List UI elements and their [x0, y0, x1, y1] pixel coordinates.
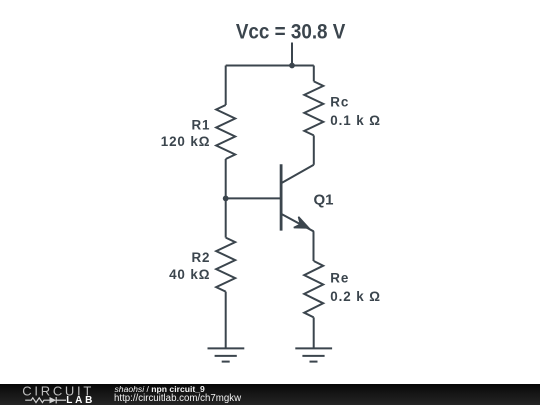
svg-text:Rc: Rc [330, 95, 349, 110]
svg-text:Q1: Q1 [314, 191, 334, 208]
footer bar [0, 384, 540, 405]
wire top rail [226, 65, 314, 67]
ground left [208, 348, 245, 361]
node junction at base [223, 196, 229, 202]
svg-text:0.1 k Ω: 0.1 k Ω [330, 113, 381, 128]
wire Vcc stub [291, 43, 293, 66]
svg-text:LAB: LAB [66, 395, 92, 405]
node junction at Vcc rail [289, 63, 295, 69]
transistor Q1 emitter lead [282, 214, 314, 235]
transistor Q1 collector lead [282, 165, 314, 183]
svg-text:120 kΩ: 120 kΩ [161, 134, 211, 149]
wire emitter vertical [313, 234, 315, 261]
ground right [295, 348, 332, 361]
wire Rc bottom lead [313, 135, 315, 164]
resistor R1 [216, 105, 235, 159]
resistor Re [304, 261, 323, 317]
svg-text:R2: R2 [191, 250, 210, 265]
transistor Q1 emitter arrow [294, 217, 309, 228]
svg-text:Vcc = 30.8 V: Vcc = 30.8 V [236, 20, 346, 44]
wire Re bottom lead [313, 317, 315, 348]
svg-text:0.2 k Ω: 0.2 k Ω [330, 289, 381, 304]
wire R1 bottom lead [225, 159, 227, 198]
resistor R2 [216, 238, 235, 292]
wire R2 bottom lead [225, 292, 227, 349]
resistor Rc [304, 81, 323, 135]
footer credit text [115, 385, 205, 394]
svg-text:R1: R1 [191, 118, 210, 133]
wire R2 top lead [225, 198, 227, 237]
CircuitLab logo [0, 384, 110, 405]
transistor Q1 base bar [280, 164, 283, 230]
svg-text:40 kΩ: 40 kΩ [169, 267, 210, 282]
wire R1 top lead [225, 66, 227, 106]
wire Rc top lead [313, 66, 315, 82]
svg-text:Re: Re [330, 271, 349, 286]
wire base [226, 197, 280, 199]
